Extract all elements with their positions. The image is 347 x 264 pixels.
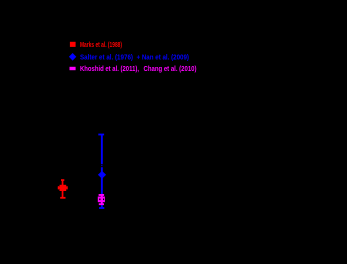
legend marker magenta bar [70, 67, 76, 70]
magenta marker left eye [99, 199, 100, 201]
red data point with error bars [58, 179, 68, 199]
legend marker red square [70, 42, 76, 47]
svg-text:Salter et al. (1976): Salter et al. (1976) [80, 52, 133, 61]
blue y-error line lower [101, 167, 103, 208]
magenta bottom cap [99, 203, 104, 205]
red square marker [60, 185, 67, 191]
blue diamond marker [98, 171, 106, 179]
svg-text:+ Nan et al. (2009): + Nan et al. (2009) [137, 52, 190, 61]
blue y-error line upper [101, 135, 103, 165]
magenta square marker [98, 197, 105, 203]
svg-text:Chang et al. (2010): Chang et al. (2010) [144, 64, 197, 73]
red y-error line [62, 180, 64, 198]
blue small dot in gap [101, 165, 102, 166]
red x-error right cap [66, 186, 68, 189]
magenta marker right eye [103, 199, 104, 201]
red x-error line [58, 187, 68, 189]
blue top cap [98, 134, 104, 136]
magenta top cap [99, 194, 105, 196]
blue bottom cap [99, 207, 104, 209]
legend marker blue diamond [69, 53, 76, 61]
svg-text:Marks et al. (1988): Marks et al. (1988) [80, 40, 122, 49]
red bottom cap [60, 197, 65, 199]
blue data point with error bars [98, 134, 106, 209]
magenta y-error line [101, 195, 103, 205]
red x-error left cap [58, 186, 60, 189]
magenta data point with error bars [98, 194, 105, 205]
svg-text:Khoshid et al. (2011),: Khoshid et al. (2011), [80, 64, 139, 73]
red top cap [61, 179, 64, 181]
